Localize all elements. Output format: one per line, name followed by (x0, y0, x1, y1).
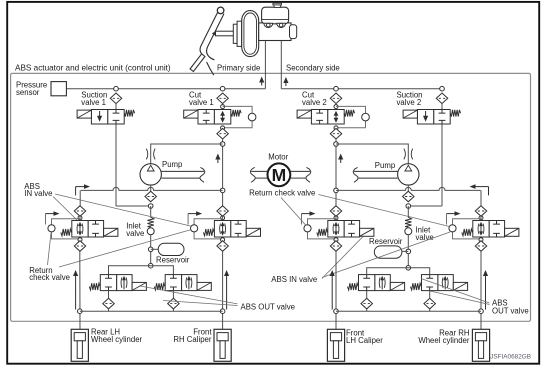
svg-text:ABS actuator and electric unit: ABS actuator and electric unit (control … (15, 63, 171, 72)
svg-text:Primary side: Primary side (217, 64, 260, 73)
svg-text:valve 2: valve 2 (302, 98, 327, 107)
check valve below ABS IN valve U3 (330, 241, 342, 252)
motor shaft to pump 1 with break squiggle (200, 167, 205, 182)
ABS IN valve U1 spring (61, 229, 72, 236)
check valve below pump 2 (403, 191, 415, 202)
wire: ABS OUT rail right (336, 310, 481, 312)
wire: suction valve 1 down-line (115, 124, 117, 206)
suction valve 2 open-position down arrow (423, 111, 428, 122)
ABS IN valve U1 solenoid (104, 228, 118, 236)
svg-text:valve 2: valve 2 (397, 98, 422, 107)
flow arrow beside left outer column (73, 270, 78, 310)
flow arrow beside secondary line (283, 77, 288, 86)
callout: return check valve right to ball U3 (281, 198, 306, 226)
check valve below pump 1 (145, 191, 157, 202)
node: cut valve 1 tap on primary rail (220, 86, 225, 91)
pump 1 circle (140, 164, 161, 185)
wire: pump 1 discharge line (151, 144, 223, 164)
cut valve 2 spring (344, 110, 354, 117)
check valve above suction valve 2 (436, 93, 448, 104)
wire: suction 2 corner to pump suction node (408, 205, 442, 207)
suction valve 2 solenoid (403, 110, 417, 118)
reservoir tank on master cylinder (262, 7, 289, 24)
cut valve 2 solenoid (297, 110, 311, 118)
flow arrow beside primary line (259, 77, 264, 86)
svg-text:check valve: check valve (29, 273, 70, 282)
svg-text:Secondary side: Secondary side (286, 64, 340, 73)
pump 2 shaft with squiggle (353, 167, 358, 182)
callout: ABS IN valve right line1 (322, 237, 363, 279)
node: pump 2 suction node (406, 204, 411, 209)
wire: ABS IN 4 column to wheel line (480, 251, 482, 329)
suction valve 1 body (91, 110, 124, 125)
wire: pump 2 discharge line (336, 144, 408, 164)
callout: ABS OUT valve right line1 (421, 279, 490, 304)
node: suction valve 2 tap on secondary rail (440, 86, 445, 91)
ABS OUT valve V2 body (165, 275, 197, 291)
ABS OUT valve V2 solenoid (197, 282, 211, 290)
return check valve ball of ABS IN U1 (48, 225, 55, 232)
wire: diamond to cut valve 1 port (222, 104, 224, 107)
motor circle (268, 163, 291, 186)
callout: ABS IN valve right line2 (322, 232, 450, 278)
cut valve 1 body (198, 110, 231, 125)
ABS OUT valve V1 spring (89, 283, 100, 290)
callout: ABS OUT valve right line2 (430, 291, 490, 305)
wire: out-feed line left (109, 266, 174, 275)
motor shaft right with squiggle (306, 167, 311, 182)
svg-text:ABS IN valve: ABS IN valve (271, 275, 317, 284)
pressure sensor box (51, 82, 66, 96)
wire: ABS OUT V3 to bottom rail (366, 291, 368, 299)
wheel cylinder: Front RH (214, 329, 231, 361)
ABS OUT valve V1 orifice up arrow (121, 276, 127, 290)
svg-text:Pump: Pump (375, 161, 396, 170)
booster push rod (212, 31, 235, 36)
svg-text:Return check valve: Return check valve (249, 188, 315, 197)
flow arrow beside left inner column (224, 270, 229, 310)
inlet valve 1 ball (147, 228, 154, 235)
wire: pump 1 inlet stub (150, 185, 152, 192)
ABS IN valve U2 orifice flow path (220, 222, 226, 236)
flow stub arrow at ABS IN U4 (447, 211, 461, 224)
ABS IN valve U1 body (72, 221, 104, 238)
suction valve 1 blocked ports (113, 110, 120, 114)
node: ABS IN valve U1 bottom port (78, 238, 82, 242)
svg-text:sensor: sensor (16, 88, 40, 97)
cut valve 2 two-way flow arrows (334, 111, 339, 123)
suction valve 1 spring (124, 110, 134, 117)
ABS OUT valve V3 solenoid (390, 282, 404, 290)
node: out-feed node right (406, 266, 411, 271)
node: suction valve 1 tap on primary rail (114, 86, 119, 91)
ABS IN valve U4 body (473, 221, 505, 238)
wire: primary rail from pressure sensor to primary corner (66, 88, 265, 90)
inner box: ABS actuator unit boundary (11, 73, 531, 321)
cut valve 1 two-way flow arrows (220, 111, 225, 123)
return check valve ball of ABS IN U2 (191, 225, 198, 232)
ABS IN valve U4 blocked ports (493, 221, 500, 225)
ABS IN valve U2 body (214, 221, 246, 238)
node: cut valve 1 bottom port (221, 126, 225, 130)
inlet valve 2 ball (405, 228, 412, 235)
node: pump 2 discharge junction (334, 142, 339, 147)
ABS IN valve U3 spring (317, 229, 328, 236)
master cylinder end cap (290, 25, 297, 39)
callout: return check valve to ball U1 (48, 233, 52, 265)
wire: cut column IN2 down to wheel line (222, 251, 224, 329)
callout: ABS IN valve left to valve U2 (55, 194, 191, 226)
wire: diamond to suction valve 2 (441, 104, 443, 110)
check valve above ABS IN valve U1 (74, 206, 86, 217)
wire: primary side down from master cylinder (264, 41, 266, 89)
wire: pump node to spring (150, 206, 152, 218)
callout: ABS OUT valve left line 2 (163, 301, 238, 306)
node: ABS IN valve U2 bottom port (221, 238, 225, 242)
svg-text:Pump: Pump (162, 160, 183, 169)
check valve below ABS OUT valve V2 (168, 298, 180, 309)
ABS OUT valve V1 solenoid (132, 282, 146, 290)
wire: ABS IN U1 top link (79, 216, 81, 220)
callout: return check valve to ball U2 (59, 230, 192, 268)
svg-text:valve 1: valve 1 (81, 98, 106, 107)
pump 2 circle (398, 164, 419, 185)
ABS IN valve U1 return check loop (52, 219, 81, 239)
wire: suction corner to pump suction node (116, 205, 151, 207)
ABS IN valve U4 orifice flow path (478, 222, 484, 236)
ABS IN valve U3 orifice flow path (333, 222, 339, 236)
ABS OUT valve V2 orifice up arrow (186, 276, 192, 290)
node: pump 1 suction node (148, 204, 153, 209)
svg-text:ABS OUT valve: ABS OUT valve (241, 303, 295, 312)
callout: ABS IN valve left to valve U1 (53, 197, 77, 221)
flow stub arrow at ABS IN U1 (46, 211, 60, 224)
ABS OUT valve V3 spring (348, 283, 359, 290)
brake booster plates (233, 21, 241, 46)
wire: rail B right corner down to ABS IN valve 4 (480, 190, 482, 205)
reservoir cap (273, 3, 282, 7)
flow stub arrow near rail B right corner (470, 184, 489, 195)
wire: ABS OUT V1 to bottom rail (108, 291, 110, 299)
check valve below ABS OUT valve V1 (103, 298, 115, 309)
wire: suction valve 2 down-line (441, 124, 443, 206)
wheel cylinder: Rear RH (472, 329, 489, 361)
cut valve 1 blocked ports (left box) (203, 110, 210, 114)
svg-text:Motor: Motor (268, 153, 288, 162)
ABS OUT valve V4 blocked ports (426, 275, 433, 279)
node: reservoir 1 junction (148, 247, 153, 252)
svg-text:IN valve: IN valve (24, 189, 52, 198)
ABS IN valve U4 solenoid (505, 228, 519, 236)
node: wheel line left outer (78, 309, 83, 314)
ABS IN valve U2 solenoid (246, 228, 260, 236)
check valve above cut valve 1 (217, 93, 229, 104)
ABS IN valve U4 spring (462, 229, 473, 236)
reservoir 2 (374, 246, 402, 258)
ABS OUT valve V2 blocked ports (170, 275, 177, 279)
wire: cut valve 2 column down (335, 139, 337, 206)
rail B with hops (left) (81, 187, 223, 190)
reservoir 1 (158, 243, 184, 255)
check valve below ABS IN valve U2 (217, 241, 229, 252)
cut valve 2 bypass check ball (362, 113, 370, 121)
svg-text:LH Caliper: LH Caliper (346, 336, 383, 345)
ABS OUT valve V2 spring (154, 283, 165, 290)
flow arrow beside cut valve 1 column (215, 154, 220, 164)
ABS IN valve U2 return check loop (194, 219, 223, 239)
suction valve 2 body (417, 110, 450, 125)
ABS IN valve U3 body (328, 221, 360, 238)
ABS OUT valve V4 orifice up arrow (442, 276, 448, 290)
wheel cylinder: Front LH (327, 329, 344, 361)
return check valve ball of ABS IN U3 (304, 225, 311, 232)
node: ABS IN valve U4 bottom port (479, 238, 483, 242)
pump 2 triangle (405, 165, 412, 171)
wire: ABS IN U2 top link (222, 216, 224, 220)
node: ABS IN valve U3 bottom port (334, 238, 338, 242)
node: rail B junction on cut 2 column (334, 188, 339, 193)
node: cut valve 1 top port (221, 105, 225, 109)
node: ABS IN valve U4 top port (479, 216, 483, 220)
check valve above ABS IN valve U4 (475, 206, 487, 217)
wire: cut column IN3 down to wheel line (335, 251, 337, 329)
check valve below ABS OUT valve V4 (424, 298, 436, 309)
check valve above cut valve 2 (330, 93, 342, 104)
flow stub arrow near rail B left corner (76, 184, 90, 195)
cut valve 1 solenoid (184, 110, 198, 118)
ABS IN valve U1 orifice flow path (77, 222, 83, 236)
wheel cylinder: Rear LH (71, 329, 88, 361)
node: ABS IN valve U1 top port (78, 216, 82, 220)
flow stub arrow at ABS IN U2 (188, 211, 202, 224)
ABS IN valve U3 blocked ports (348, 221, 355, 225)
ABS IN valve U2 spring (203, 229, 214, 236)
ABS OUT valve V1 body (100, 275, 132, 291)
wire: ABS IN U4 top link (480, 216, 482, 220)
ABS IN valve U1 blocked ports (92, 221, 99, 225)
ABS IN valve U2 blocked ports (235, 221, 242, 225)
flow stub arrow at ABS IN U3 (302, 211, 316, 224)
wire: out-feed line right (367, 268, 430, 275)
svg-text:valve 1: valve 1 (189, 98, 214, 107)
ABS OUT valve V4 solenoid (453, 282, 467, 290)
pump 1 triangle (147, 165, 154, 171)
ABS OUT valve V1 blocked ports (105, 275, 112, 279)
cut valve 1 spring (231, 110, 241, 117)
wire: cut valve 1 column down (222, 139, 224, 206)
wire: ABS OUT V2 to bottom rail (172, 291, 174, 299)
node: reservoir 2 junction (406, 249, 411, 254)
node: rail B junction on cut column (220, 188, 225, 193)
svg-text:Wheel cylinder: Wheel cylinder (91, 335, 143, 344)
wire: ABS OUT V4 to bottom rail (429, 291, 431, 299)
ABS OUT valve V4 spring (411, 283, 422, 290)
node: wheel line left inner (220, 309, 225, 314)
reservoir port bumps (264, 23, 286, 27)
ABS OUT valve V4 body (422, 275, 454, 291)
check valve below cut valve 1 (217, 128, 229, 139)
flow arrow beside right outer column (483, 270, 488, 310)
check valve below ABS IN valve U4 (475, 241, 487, 252)
suction valve 2 spring (450, 110, 460, 117)
ABS IN valve U3 solenoid (360, 228, 374, 236)
brake booster shell (242, 11, 259, 57)
callout: ABS OUT valve left line 1 (140, 286, 238, 304)
node: pump 1 discharge junction (220, 142, 225, 147)
wire: ABS IN 1 column to wheel line (79, 251, 81, 329)
master cylinder body (259, 23, 291, 41)
cut valve 1 bypass loop (223, 106, 253, 127)
node: ABS IN valve U3 top port (334, 216, 338, 220)
ABS IN valve U3 return check loop (308, 219, 337, 239)
node: wheel line right outer (479, 309, 484, 314)
svg-text:JSFIA0682GB: JSFIA0682GB (490, 354, 531, 361)
brake pedal pad (190, 54, 205, 72)
rail B with hops (right) (336, 187, 481, 190)
wire: secondary side down from master cylinder (280, 41, 282, 89)
motor shaft left with squiggle (250, 167, 255, 182)
wire: ABS OUT rail left (80, 310, 223, 312)
wire: inlet valve 2 to out-feed node (407, 235, 409, 268)
ABS OUT valve V3 orifice up arrow (379, 276, 385, 290)
cut valve 2 body (311, 110, 344, 125)
check valve above suction valve 1 (110, 93, 122, 104)
wire: to reservoir 2 (374, 250, 408, 252)
check valve below ABS IN valve U1 (74, 241, 86, 252)
svg-text:Wheel cylinder: Wheel cylinder (418, 336, 470, 345)
svg-text:valve: valve (126, 229, 144, 238)
node: out-feed node left (148, 263, 153, 268)
node: wheel line right inner (334, 309, 339, 314)
brake pedal pivot knob (217, 7, 224, 14)
wire: pump 2 node to spring (407, 206, 409, 218)
node: ABS IN valve U2 top port (221, 216, 225, 220)
suction valve 1 open-position down arrow (97, 111, 102, 122)
ABS IN valve U4 return check loop (453, 219, 482, 239)
svg-text:valve: valve (416, 233, 434, 242)
wire: diamond to cut valve 2 port (335, 104, 337, 107)
ABS OUT valve V3 body (359, 275, 391, 291)
wire: ABS IN U3 top link (335, 216, 337, 220)
flow arrow beside cut valve 2 column (338, 154, 343, 164)
wire: inlet valve 1 to out-feed node (150, 235, 152, 266)
cut valve 2 bypass loop (336, 106, 366, 127)
check valve below ABS OUT valve V3 (361, 298, 373, 309)
wire: to reservoir 1 (151, 248, 159, 250)
callout: return check valve right to ball U4 (319, 195, 450, 227)
brake pedal arm (200, 12, 224, 75)
inlet valve 1 spring (148, 217, 154, 227)
svg-text:Reservoir: Reservoir (156, 256, 190, 265)
svg-text:M: M (272, 165, 287, 185)
cut valve 2 blocked ports (316, 110, 323, 114)
svg-text:OUT valve: OUT valve (492, 306, 529, 315)
suction valve 1 solenoid (77, 110, 91, 118)
inlet valve 2 spring (405, 217, 411, 227)
suction valve 2 blocked ports (439, 110, 446, 114)
check valve above ABS IN valve U3 (330, 206, 342, 217)
node: cut valve 2 top port (334, 105, 338, 109)
pump 1 connection arcs (146, 149, 148, 160)
pump 2 connection arcs (404, 149, 406, 160)
return check valve ball of ABS IN U4 (449, 225, 456, 232)
svg-text:RH Caliper: RH Caliper (173, 335, 212, 344)
svg-text:Reservoir: Reservoir (369, 237, 403, 246)
node: cut valve 2 bottom port (334, 126, 338, 130)
wire: diamond to suction valve 1 (115, 104, 117, 110)
ABS OUT valve V3 blocked ports (363, 275, 370, 279)
node: cut valve 2 tap on secondary rail (334, 86, 339, 91)
wire: pump 2 inlet stub (407, 185, 409, 192)
check valve above ABS IN valve U2 (217, 206, 229, 217)
check valve below cut valve 2 (330, 128, 342, 139)
cut valve 1 bypass check ball (248, 113, 256, 121)
wire: secondary rail (281, 88, 442, 90)
flow arrow beside right inner column (330, 270, 335, 310)
wire: rail B corner down to ABS IN valve 1 (79, 190, 81, 205)
